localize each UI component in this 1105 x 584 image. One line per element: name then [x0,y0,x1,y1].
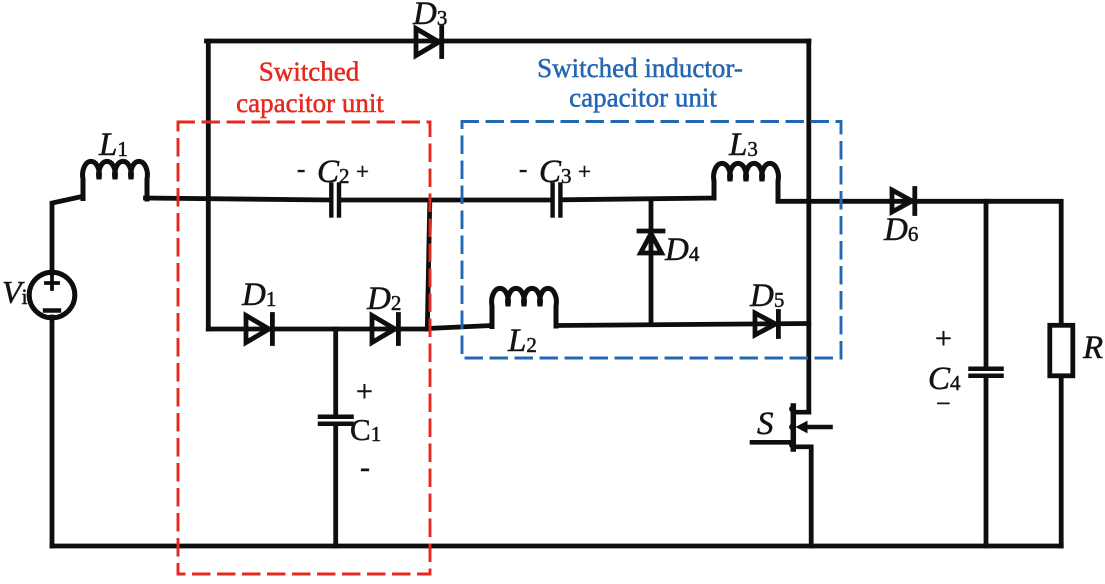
boundary: switched capacitor unit (red dashed box) [178,122,430,574]
svg-text:-: - [297,156,305,183]
capacitor C1 [320,417,352,424]
resistor R [1050,325,1073,376]
svg-text:capacitor unit: capacitor unit [569,83,717,113]
svg-text:+: + [578,159,591,184]
inductor L3 [714,163,779,201]
svg-text:+: + [935,322,952,355]
svg-text:D1: D1 [241,277,276,313]
svg-text:S: S [757,406,774,442]
wire left vertical from top bus to D1 row [206,41,211,329]
svg-text:D5: D5 [749,278,784,314]
boundary: switched inductor-capacitor unit (blue dashed box) [462,122,841,359]
wire L1 to C2 left plate [146,198,330,200]
wire D2 output to L2 left leg [428,326,493,329]
wire C2-plus node down to D2 cathode node [427,201,430,329]
diode D3 [416,28,442,57]
wire C4 bottom plate to ground bus [984,377,989,546]
wire C1 top branch [333,329,338,416]
svg-text:C2: C2 [317,154,350,190]
source Vi [29,272,75,318]
diode D2 [372,315,398,344]
capacitor C3 [553,185,561,216]
wire output node down to C4 top plate [984,201,989,368]
wire right vertical from top bus to MOSFET drain [806,41,811,412]
wire C1 bottom to ground bus [333,426,338,546]
svg-text:D6: D6 [883,212,918,248]
svg-text:L3: L3 [728,127,758,163]
capacitor C2 [331,185,339,216]
svg-text:R: R [1082,330,1103,366]
diode D6 [892,189,915,214]
svg-text:+: + [356,159,369,184]
svg-text:Switched inductor-: Switched inductor- [537,53,743,83]
label Switched capacitor unit [236,57,384,119]
svg-text:-: - [519,156,527,183]
svg-text:D3: D3 [412,0,447,32]
svg-text:-: - [360,451,370,484]
svg-text:C1: C1 [350,412,381,447]
wire D4 branch [649,200,654,325]
wire MOSFET source to ground bus [809,447,814,546]
svg-text:Switched: Switched [259,57,360,87]
svg-text:C3: C3 [539,154,572,190]
inductor L2 [492,288,557,326]
diode D1 [246,315,272,344]
svg-text:capacitor unit: capacitor unit [236,88,384,118]
capacitor C4 [971,369,1002,376]
svg-text:Vi: Vi [2,274,28,310]
diode D5 [755,312,778,337]
svg-text:D2: D2 [366,281,401,317]
svg-text:−: − [936,389,951,418]
wire C2 right plate to C3 left plate [341,198,550,203]
wire D1 D2 row [208,327,427,332]
diode D4 (pointing up) [639,231,663,253]
wire top bus [207,39,810,44]
wire Vi bottom lead to ground bus [50,317,55,546]
transistor S (MOSFET) [752,406,831,449]
svg-text:L2: L2 [507,323,537,359]
wire C3 right plate to L3 left leg [562,198,714,200]
svg-text:+: + [356,375,373,408]
svg-text:L1: L1 [98,127,128,163]
wire L2 to MOSFET drain node (through D4 junction and D5) [557,324,809,326]
wire L3 to output corner and down to resistor R [778,201,1061,325]
svg-text:D4: D4 [664,232,700,268]
wire resistor R bottom lead to ground bus [1059,376,1064,546]
label Switched inductor-capacitor unit [537,53,743,113]
inductor L1 [83,161,148,199]
wire bottom ground bus [52,544,1061,549]
wire Vi top lead up to L1 [52,197,82,274]
